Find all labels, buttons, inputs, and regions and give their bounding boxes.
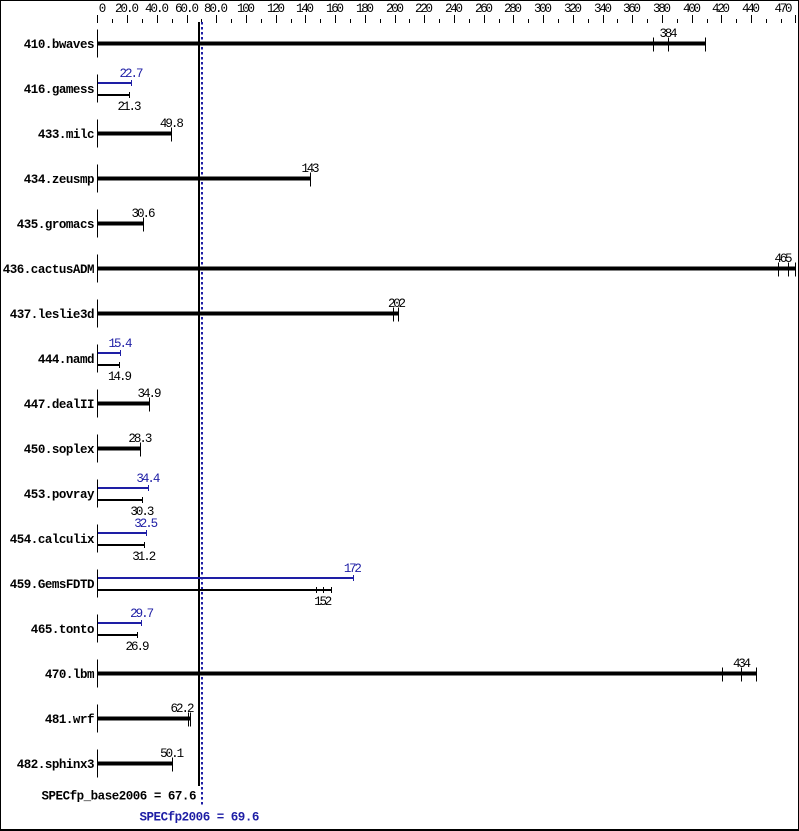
- benchmark row 482.sphinx3: [17, 747, 184, 778]
- 410.bwaves base result bar: [98, 42, 705, 46]
- svg-text:40.0: 40.0: [145, 2, 169, 16]
- 453.povray peak bar end cap: [148, 485, 149, 491]
- 433.milc base result bar: [98, 132, 171, 136]
- svg-text:470.lbm: 470.lbm: [45, 668, 95, 682]
- svg-text:62.2: 62.2: [171, 702, 195, 716]
- 465.tonto axis-origin cap line: [97, 615, 98, 643]
- 437.leslie3d bar end cap: [398, 308, 399, 322]
- 437.leslie3d run mark 1: [393, 308, 394, 322]
- 436.cactusADM run mark 2: [788, 263, 789, 277]
- svg-text:32.5: 32.5: [134, 517, 158, 531]
- svg-text:260: 260: [475, 2, 493, 16]
- svg-text:22.7: 22.7: [120, 67, 144, 81]
- svg-text:28.3: 28.3: [128, 432, 152, 446]
- benchmark row 410.bwaves: [24, 27, 706, 58]
- svg-text:SPECfp_base2006 = 67.6: SPECfp_base2006 = 67.6: [42, 790, 196, 804]
- 465.tonto base result bar (black): [98, 634, 137, 636]
- 436.cactusADM axis-origin cap line: [97, 255, 98, 283]
- svg-text:360: 360: [623, 2, 641, 16]
- 450.soplex axis-origin cap line: [97, 435, 98, 463]
- 444.namd peak bar end cap: [120, 350, 121, 356]
- svg-text:482.sphinx3: 482.sphinx3: [17, 758, 94, 772]
- benchmark row 470.lbm: [45, 657, 757, 688]
- svg-text:280: 280: [504, 2, 522, 16]
- svg-text:34.4: 34.4: [136, 472, 160, 486]
- svg-text:120: 120: [267, 2, 285, 16]
- 434.zeusmp bar end cap: [310, 173, 311, 187]
- svg-text:450.soplex: 450.soplex: [24, 443, 95, 457]
- svg-text:34.9: 34.9: [138, 387, 162, 401]
- svg-text:470: 470: [775, 2, 793, 16]
- svg-text:49.8: 49.8: [160, 117, 184, 131]
- 454.calculix base bar end cap: [144, 542, 145, 548]
- 454.calculix base result bar (black): [98, 544, 144, 546]
- 465.tonto peak bar end cap: [141, 620, 142, 626]
- svg-text:436.cactusADM: 436.cactusADM: [3, 263, 94, 277]
- svg-text:380: 380: [653, 2, 671, 16]
- 434.zeusmp axis-origin cap line: [97, 165, 98, 193]
- 454.calculix peak bar end cap: [146, 530, 147, 536]
- benchmark row 434.zeusmp: [24, 162, 320, 193]
- svg-text:30.6: 30.6: [132, 207, 156, 221]
- svg-text:180: 180: [356, 2, 374, 16]
- svg-text:0: 0: [99, 2, 107, 16]
- 453.povray axis-origin cap line: [97, 480, 98, 508]
- 453.povray peak result bar (blue): [98, 487, 148, 489]
- svg-text:300: 300: [534, 2, 552, 16]
- svg-text:465.tonto: 465.tonto: [31, 623, 94, 637]
- benchmark row 454.calculix: [10, 517, 158, 564]
- 433.milc bar end cap: [171, 128, 172, 142]
- 410.bwaves run mark 1: [653, 38, 654, 52]
- 416.gamess axis-origin cap line: [97, 75, 98, 103]
- 482.sphinx3 bar end cap: [172, 758, 173, 772]
- 470.lbm run mark 1: [722, 668, 723, 682]
- benchmark row 433.milc: [38, 117, 184, 148]
- benchmark row 453.povray: [24, 472, 161, 519]
- 450.soplex bar end cap: [140, 443, 141, 457]
- svg-text:160: 160: [326, 2, 344, 16]
- benchmark row 416.gamess: [24, 67, 144, 114]
- 434.zeusmp base result bar: [98, 177, 310, 181]
- svg-text:465: 465: [775, 252, 793, 266]
- 435.gromacs axis-origin cap line: [97, 210, 98, 238]
- svg-text:447.dealII: 447.dealII: [24, 398, 94, 412]
- svg-text:440: 440: [742, 2, 760, 16]
- 437.leslie3d base result bar: [98, 312, 398, 316]
- axis scale numeric labels: [99, 2, 793, 16]
- svg-text:444.namd: 444.namd: [38, 353, 94, 367]
- svg-text:15.4: 15.4: [109, 337, 133, 351]
- svg-text:400: 400: [683, 2, 701, 16]
- 450.soplex base result bar: [98, 447, 140, 451]
- 454.calculix peak result bar (blue): [98, 532, 146, 534]
- benchmark row 481.wrf: [45, 702, 195, 733]
- 459.GemsFDTD peak result bar (blue): [98, 577, 353, 579]
- svg-text:481.wrf: 481.wrf: [45, 713, 94, 727]
- 454.calculix axis-origin cap line: [97, 525, 98, 553]
- 447.dealII bar end cap: [149, 398, 150, 412]
- 470.lbm axis-origin cap line: [97, 660, 98, 688]
- benchmark row 435.gromacs: [17, 207, 156, 238]
- svg-text:200: 200: [386, 2, 404, 16]
- 482.sphinx3 axis-origin cap line: [97, 750, 98, 778]
- 459.GemsFDTD base result bar (black): [98, 589, 331, 591]
- 453.povray base bar end cap: [142, 497, 143, 503]
- 459.GemsFDTD base bar end cap: [331, 587, 332, 593]
- svg-text:240: 240: [445, 2, 463, 16]
- svg-text:384: 384: [660, 27, 678, 41]
- 470.lbm run mark 2: [741, 668, 742, 682]
- 433.milc axis-origin cap line: [97, 120, 98, 148]
- benchmark row 444.namd: [38, 337, 133, 384]
- benchmark row 450.soplex: [24, 432, 153, 463]
- 410.bwaves axis-origin cap line: [97, 30, 98, 58]
- svg-text:454.calculix: 454.calculix: [10, 533, 95, 547]
- axis scale tick marks (0 to 470, every 10): [97, 15, 796, 23]
- 436.cactusADM run mark 1: [778, 263, 779, 277]
- svg-text:14.9: 14.9: [108, 370, 132, 384]
- svg-text:100: 100: [237, 2, 255, 16]
- svg-text:26.9: 26.9: [126, 640, 150, 654]
- svg-text:459.GemsFDTD: 459.GemsFDTD: [10, 578, 95, 592]
- 410.bwaves run mark 2: [668, 38, 669, 52]
- svg-text:220: 220: [415, 2, 433, 16]
- 459.GemsFDTD base run mark 1: [316, 587, 317, 593]
- 465.tonto peak result bar (blue): [98, 622, 141, 624]
- 436.cactusADM bar end cap: [795, 263, 796, 277]
- svg-text:50.1: 50.1: [160, 747, 184, 761]
- 481.wrf run mark 1: [188, 713, 189, 727]
- svg-text:320: 320: [564, 2, 582, 16]
- 481.wrf bar end cap: [190, 713, 191, 727]
- 470.lbm bar end cap: [756, 668, 757, 682]
- benchmark row 436.cactusADM: [3, 252, 796, 283]
- 459.GemsFDTD peak bar end cap: [353, 575, 354, 581]
- 435.gromacs bar end cap: [143, 218, 144, 232]
- benchmark row 459.GemsFDTD: [10, 562, 362, 609]
- 416.gamess base result bar (black): [98, 94, 129, 96]
- benchmark row 437.leslie3d: [10, 297, 406, 328]
- 444.namd base result bar (black): [98, 364, 119, 366]
- svg-text:21.3: 21.3: [118, 100, 142, 114]
- 447.dealII base result bar: [98, 402, 149, 406]
- 444.namd peak result bar (blue): [98, 352, 120, 354]
- 416.gamess peak bar end cap: [131, 80, 132, 86]
- 465.tonto base bar end cap: [137, 632, 138, 638]
- svg-text:SPECfp2006 = 69.6: SPECfp2006 = 69.6: [140, 811, 259, 825]
- svg-text:152: 152: [314, 595, 332, 609]
- 482.sphinx3 base result bar: [98, 762, 172, 766]
- svg-text:453.povray: 453.povray: [24, 488, 95, 502]
- svg-text:31.2: 31.2: [132, 550, 156, 564]
- 459.GemsFDTD axis-origin cap line: [97, 570, 98, 598]
- 416.gamess base bar end cap: [129, 92, 130, 98]
- 459.GemsFDTD base run mark 2: [323, 587, 324, 593]
- 481.wrf axis-origin cap line: [97, 705, 98, 733]
- svg-text:140: 140: [296, 2, 314, 16]
- vertical reference line: SPECfp_base2006 mean 67.6 (solid black): [198, 22, 200, 786]
- svg-text:340: 340: [594, 2, 612, 16]
- svg-text:202: 202: [388, 297, 406, 311]
- 437.leslie3d axis-origin cap line: [97, 300, 98, 328]
- svg-text:20.0: 20.0: [115, 2, 139, 16]
- svg-text:143: 143: [302, 162, 320, 176]
- 410.bwaves bar end cap: [705, 38, 706, 52]
- 444.namd base bar end cap: [119, 362, 120, 368]
- svg-text:435.gromacs: 435.gromacs: [17, 218, 94, 232]
- svg-text:172: 172: [344, 562, 362, 576]
- vertical reference line: SPECfp2006 mean 69.6 (dotted blue): [201, 22, 203, 807]
- svg-text:434: 434: [733, 657, 751, 671]
- svg-text:410.bwaves: 410.bwaves: [24, 38, 94, 52]
- 436.cactusADM base result bar: [98, 267, 795, 271]
- 444.namd axis-origin cap line: [97, 345, 98, 373]
- 416.gamess peak result bar (blue): [98, 82, 131, 84]
- svg-text:60.0: 60.0: [175, 2, 199, 16]
- svg-text:420: 420: [712, 2, 730, 16]
- benchmark row 465.tonto: [31, 607, 154, 654]
- 447.dealII axis-origin cap line: [97, 390, 98, 418]
- 435.gromacs base result bar: [98, 222, 143, 226]
- svg-text:29.7: 29.7: [130, 607, 154, 621]
- svg-text:433.milc: 433.milc: [38, 128, 94, 142]
- svg-text:80.0: 80.0: [204, 2, 228, 16]
- 470.lbm base result bar: [98, 672, 756, 676]
- svg-text:437.leslie3d: 437.leslie3d: [10, 308, 94, 322]
- svg-text:434.zeusmp: 434.zeusmp: [24, 173, 94, 187]
- benchmark row 447.dealII: [24, 387, 162, 418]
- 481.wrf base result bar: [98, 717, 190, 721]
- 453.povray base result bar (black): [98, 499, 142, 501]
- svg-text:416.gamess: 416.gamess: [24, 83, 94, 97]
